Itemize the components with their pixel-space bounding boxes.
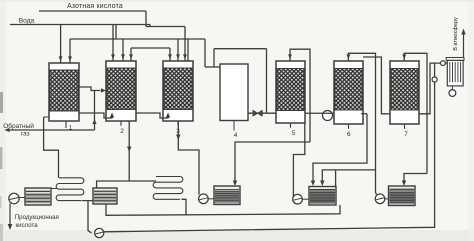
svg-text:Вода: Вода bbox=[19, 18, 35, 25]
svg-text:2: 2 bbox=[120, 128, 124, 135]
svg-text:кислота: кислота bbox=[16, 222, 39, 229]
svg-text:4: 4 bbox=[234, 132, 238, 139]
svg-text:Продукционная: Продукционная bbox=[15, 214, 59, 221]
svg-text:6: 6 bbox=[347, 131, 351, 138]
svg-text:Обратный: Обратный bbox=[3, 122, 34, 130]
svg-text:В атмосферу: В атмосферу bbox=[453, 17, 459, 51]
svg-text:7: 7 bbox=[404, 131, 408, 138]
svg-text:Азотная кислота: Азотная кислота bbox=[67, 3, 123, 10]
svg-text:5: 5 bbox=[292, 130, 296, 137]
svg-text:газ: газ bbox=[21, 131, 30, 138]
